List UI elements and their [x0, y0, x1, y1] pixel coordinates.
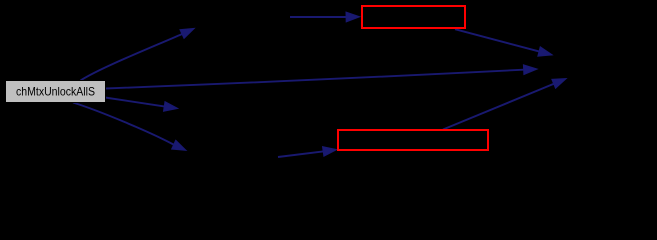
edge node1->chMtxLockS (into top red box)	[290, 12, 360, 22]
svg-text:chMtxUnlockAllS: chMtxUnlockAllS	[16, 84, 95, 98]
edge chMtxUnlockAllS->node4 (down-right)	[73, 103, 186, 151]
edge chMtxUnlockAllS->node6 (long right)	[105, 65, 538, 89]
edge chMtxLockS->node5 (to right hidden node)	[455, 29, 553, 56]
edge chMtxUnlockAllS->node3 (short right)	[105, 98, 178, 112]
node chMtxUnlockAllS (grey filled box)	[6, 81, 106, 103]
edge chSchRescheduleS->node6 (up right)	[443, 79, 567, 130]
node chMtxLockS (top red-bordered box, label hidden on black)	[362, 6, 465, 28]
edge node4->chSchRescheduleS (into bottom red box)	[278, 147, 337, 158]
edge chMtxUnlockAllS->node1 (to top-left hidden node)	[81, 28, 195, 80]
node chSchRescheduleS (bottom red-bordered box, label hidden on black)	[338, 130, 488, 150]
